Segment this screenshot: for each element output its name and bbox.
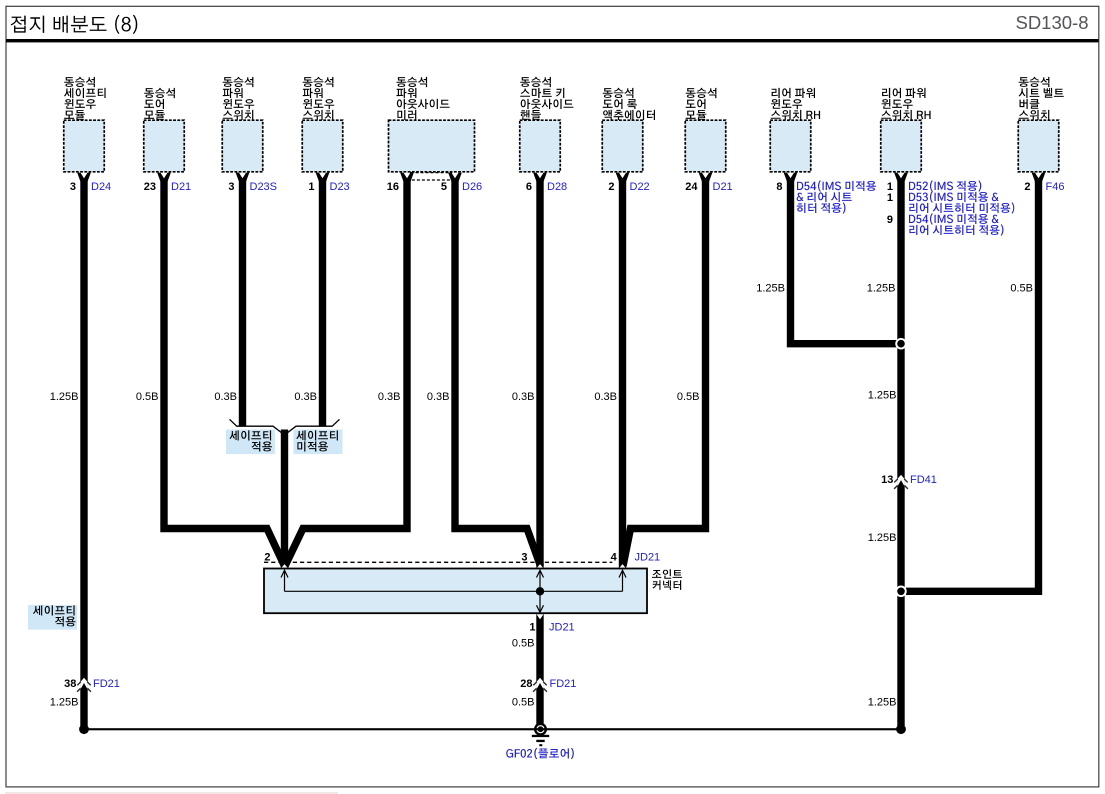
svg-text:D22: D22	[630, 181, 650, 193]
svg-text:JD21: JD21	[549, 622, 575, 634]
svg-text:38: 38	[64, 678, 76, 690]
svg-text:0.5B: 0.5B	[512, 638, 535, 650]
svg-text:0.3B: 0.3B	[427, 391, 450, 403]
svg-text:0.3B: 0.3B	[294, 391, 317, 403]
svg-text:16: 16	[387, 181, 399, 193]
svg-text:0.5B: 0.5B	[677, 391, 700, 403]
svg-text:3: 3	[521, 552, 527, 564]
svg-text:1.25B: 1.25B	[868, 697, 897, 709]
svg-text:2: 2	[608, 181, 614, 193]
svg-text:13: 13	[881, 474, 893, 486]
svg-text:0.3B: 0.3B	[214, 391, 237, 403]
svg-text:0.3B: 0.3B	[594, 391, 617, 403]
svg-text:0.3B: 0.3B	[512, 391, 535, 403]
svg-text:6: 6	[526, 181, 532, 193]
svg-text:1.25B: 1.25B	[50, 391, 79, 403]
svg-text:SD130-8: SD130-8	[1015, 12, 1088, 33]
svg-text:FD41: FD41	[910, 474, 937, 486]
svg-text:28: 28	[520, 678, 532, 690]
svg-text:FD21: FD21	[93, 678, 120, 690]
svg-text:D24: D24	[91, 181, 111, 193]
svg-text:0.5B: 0.5B	[1010, 283, 1033, 295]
svg-text:2: 2	[1024, 181, 1030, 193]
svg-text:8: 8	[776, 181, 782, 193]
svg-text:1: 1	[308, 181, 314, 193]
svg-text:1: 1	[887, 192, 893, 204]
svg-text:1.25B: 1.25B	[50, 697, 79, 709]
svg-text:1.25B: 1.25B	[867, 283, 896, 295]
svg-text:4: 4	[611, 552, 618, 564]
svg-text:24: 24	[685, 181, 698, 193]
svg-text:0.5B: 0.5B	[512, 697, 535, 709]
svg-text:1.25B: 1.25B	[756, 283, 785, 295]
svg-text:0.3B: 0.3B	[378, 391, 401, 403]
svg-text:3: 3	[70, 181, 76, 193]
svg-text:9: 9	[887, 214, 893, 226]
svg-text:D21: D21	[171, 181, 191, 193]
svg-text:FD21: FD21	[550, 678, 577, 690]
svg-text:JD21: JD21	[635, 552, 661, 564]
svg-text:23: 23	[144, 181, 156, 193]
svg-text:D28: D28	[547, 181, 567, 193]
svg-text:1: 1	[529, 622, 535, 634]
svg-text:0.5B: 0.5B	[136, 391, 159, 403]
svg-text:3: 3	[228, 181, 234, 193]
svg-text:D23: D23	[330, 181, 350, 193]
svg-text:D21: D21	[713, 181, 733, 193]
svg-text:5: 5	[441, 181, 447, 193]
svg-text:D26: D26	[462, 181, 482, 193]
svg-text:1.25B: 1.25B	[868, 532, 897, 544]
svg-text:F46: F46	[1046, 181, 1065, 193]
svg-text:D23S: D23S	[250, 181, 278, 193]
svg-text:2: 2	[264, 552, 270, 564]
svg-text:1.25B: 1.25B	[868, 390, 897, 402]
